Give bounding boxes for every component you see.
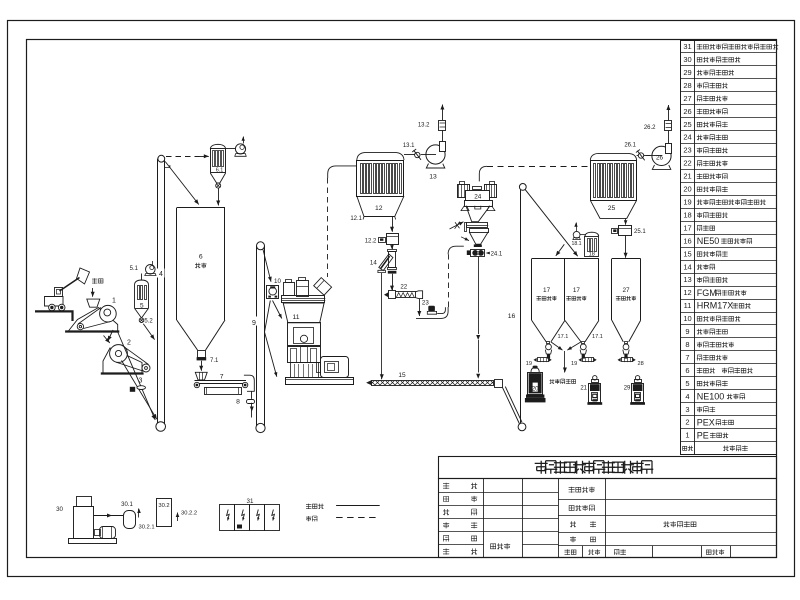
svg-text:12: 12 — [375, 205, 383, 212]
label 块料 feed — [91, 278, 103, 297]
svg-text:HRM17X: HRM17X — [697, 301, 734, 311]
svg-text:22: 22 — [683, 159, 691, 168]
discharge pipe under 12.2 — [388, 250, 397, 274]
svg-text:27: 27 — [622, 287, 630, 294]
ultra-fine classifier 24 — [458, 182, 497, 245]
svg-text:23: 23 — [422, 300, 429, 307]
conveying pipe bend 23/22 — [416, 307, 448, 318]
air dryer 30.2 — [157, 499, 172, 527]
svg-text:12.1: 12.1 — [350, 216, 362, 222]
svg-text:26: 26 — [656, 155, 664, 162]
svg-text:8: 8 — [236, 399, 240, 406]
svg-text:1: 1 — [685, 431, 689, 440]
rotary valve 24.1 — [467, 250, 503, 258]
air line elevator 4 to collector 6.1 — [166, 154, 209, 158]
svg-text:29: 29 — [624, 386, 631, 392]
svg-text:PE: PE — [697, 430, 709, 440]
wire arrow 30.2.2 — [176, 511, 197, 522]
svg-text:2: 2 — [127, 340, 131, 347]
svg-text:17.1: 17.1 — [558, 334, 569, 340]
wire 6.1 to silo 6 — [216, 188, 220, 205]
svg-text:17: 17 — [543, 287, 551, 294]
svg-text:5: 5 — [685, 379, 689, 388]
elevator 4 (NE100 bucket elevator) — [156, 155, 166, 431]
svg-text:27: 27 — [683, 94, 691, 103]
svg-text:30.1: 30.1 — [121, 502, 133, 508]
svg-text:30: 30 — [683, 55, 691, 64]
wire screw 22 drop — [417, 299, 421, 316]
svg-text:18.1: 18.1 — [571, 241, 581, 247]
svg-text:28: 28 — [638, 361, 644, 367]
svg-text:7.1: 7.1 — [210, 358, 219, 364]
ground line under loader — [35, 311, 73, 321]
svg-text:22: 22 — [400, 284, 407, 291]
valve 13.1 — [403, 143, 421, 160]
svg-text:17: 17 — [683, 223, 691, 232]
silo-top dust collector 18 — [585, 232, 599, 257]
svg-text:6.1: 6.1 — [216, 167, 224, 173]
svg-text:NE100: NE100 — [697, 391, 725, 401]
svg-text:8: 8 — [685, 340, 689, 349]
title box 立磨配二次分选流程示意图 — [439, 457, 777, 479]
screw conveyor 22 — [384, 284, 423, 299]
svg-text:14: 14 — [683, 262, 691, 271]
svg-text:5: 5 — [140, 302, 144, 309]
valve 5.2 — [139, 318, 153, 325]
bag outlet under silo 17-1 — [545, 334, 568, 359]
wire crossed feed into 24 — [450, 222, 464, 229]
wire arrow into 24 cone — [461, 237, 469, 241]
svg-text:28: 28 — [683, 81, 691, 90]
title block grid — [439, 479, 777, 558]
air compressor 30 — [56, 497, 116, 544]
iron remover 3 — [130, 378, 146, 392]
wire crusher1 to crusher2 — [108, 330, 113, 341]
fine powder dust collector 25 — [590, 153, 636, 218]
discharge valve 7.1 — [197, 357, 219, 364]
svg-text:FGM: FGM — [697, 288, 717, 298]
air receiver 30.1 — [121, 502, 135, 529]
wire crusher2 to elevator 4 — [122, 361, 157, 420]
discharge spout of elevator 4 — [165, 165, 170, 168]
svg-text:13.1: 13.1 — [403, 143, 415, 149]
svg-text:10: 10 — [274, 278, 281, 285]
svg-text:17.1: 17.1 — [592, 334, 603, 340]
svg-text:23: 23 — [683, 146, 691, 155]
svg-text:12: 12 — [683, 288, 691, 297]
svg-text:20: 20 — [532, 386, 539, 392]
fan 18.1 — [571, 223, 581, 247]
air-slide chute 14 — [370, 254, 393, 273]
silo-top dust collector 6.1 — [210, 144, 225, 183]
fine powder packer 29 — [624, 376, 645, 405]
legend material flow — [306, 504, 380, 509]
svg-text:31: 31 — [683, 42, 691, 51]
wire collector 12 to valve 13.1 — [404, 154, 415, 156]
svg-text:31: 31 — [247, 498, 254, 505]
wheel loader — [45, 268, 90, 311]
wire gate 8 to elevator 9 — [250, 403, 254, 418]
wire feeder 7 to gate 8 — [251, 391, 253, 399]
fan 13 outlet + valve 13.2 — [418, 105, 446, 142]
rotary air-lock feeder 10 — [267, 278, 282, 299]
wire branch into silo 17-1 — [556, 244, 565, 256]
wire feed arrow into crusher 2 — [104, 336, 110, 344]
fine powder packer 21 — [580, 376, 602, 405]
svg-text:10: 10 — [683, 314, 691, 323]
raw material silo 6 — [177, 208, 226, 358]
elevator 16 (NE50 bucket elevator) — [508, 184, 526, 431]
rotary valve 25.1 — [612, 226, 647, 236]
air conveying riser to classifier 24 — [448, 246, 464, 307]
wire 12 to valve 12.2 — [390, 217, 394, 232]
valve 26.1 — [624, 143, 644, 161]
ton-bag packer 20 — [525, 366, 546, 403]
svg-text:25.1: 25.1 — [634, 229, 646, 235]
svg-text:24: 24 — [683, 133, 691, 142]
fan 5.1 — [130, 261, 156, 280]
svg-text:16: 16 — [508, 313, 516, 320]
wire 25 to valve 26.1 — [637, 155, 651, 157]
svg-text:25: 25 — [683, 120, 691, 129]
dust collector 5 — [135, 280, 149, 318]
svg-text:11: 11 — [684, 301, 692, 310]
svg-text:25: 25 — [608, 205, 616, 212]
svg-text:12.2: 12.2 — [365, 238, 377, 244]
fan of collector 6.1 — [226, 137, 247, 157]
svg-text:9: 9 — [252, 320, 256, 327]
svg-text:11: 11 — [292, 314, 299, 321]
svg-text:30: 30 — [56, 506, 63, 513]
wire 5.2 to elevator 4 — [143, 324, 154, 340]
svg-text:15: 15 — [683, 249, 691, 258]
svg-text:15: 15 — [398, 372, 406, 379]
feed hopper — [87, 299, 100, 307]
wire elevator 16 to silos — [525, 190, 578, 257]
fine product silo 27 — [612, 259, 641, 342]
svg-text:5.1: 5.1 — [130, 266, 139, 272]
svg-text:NE50: NE50 — [697, 236, 720, 246]
main mill fan 13 — [421, 142, 446, 181]
bag outlet under silo 27 — [623, 342, 629, 359]
wire chute 14 to screw 15 — [380, 273, 384, 380]
svg-text:13.2: 13.2 — [418, 123, 430, 129]
legend air flow — [306, 516, 380, 521]
product silos 17-1 and 17-2 — [532, 259, 599, 342]
svg-text:7: 7 — [220, 374, 224, 381]
svg-text:3: 3 — [685, 405, 689, 414]
svg-text:20: 20 — [683, 185, 691, 194]
flange under 24 — [474, 244, 482, 247]
pneumatic blower 23 — [422, 300, 437, 315]
wire elevator 9 to feeder 10 — [263, 250, 272, 282]
svg-text:4: 4 — [159, 271, 163, 278]
wire feeder 10 into mill top — [273, 301, 282, 319]
svg-text:1: 1 — [112, 298, 116, 305]
equipment list table — [681, 40, 779, 455]
wire 24.1 to screw 15 — [476, 257, 480, 379]
svg-text:26: 26 — [683, 107, 691, 116]
fan 26 outlet + valve 26.2 — [644, 105, 672, 143]
wire 12.2 to pipe — [390, 244, 394, 249]
bulk truck loading chute 散装车接口 — [550, 342, 582, 384]
svg-text:16: 16 — [683, 236, 691, 245]
wire 25.1 to silo 27 — [624, 235, 628, 258]
svg-text:24.1: 24.1 — [491, 252, 503, 258]
wire 18.1 to 18 — [580, 234, 585, 236]
screw conveyor 15 — [366, 372, 502, 388]
svg-text:29: 29 — [683, 68, 691, 77]
svg-text:6: 6 — [685, 366, 689, 375]
svg-text:14: 14 — [370, 260, 377, 267]
svg-text:2: 2 — [685, 418, 689, 427]
wire 7.1 to feeder 7 — [199, 361, 203, 371]
wire elevator 4 to silo 6 — [165, 162, 199, 205]
svg-text:19: 19 — [526, 361, 532, 367]
svg-text:30.2.2: 30.2.2 — [181, 511, 197, 517]
bag outlet under silo 17-2 — [580, 334, 603, 359]
wire crusher1 discharge to elevator 4 — [118, 332, 156, 421]
wire 30 to receiver 30.1 — [94, 514, 123, 518]
discharger 19 (silo 17-1) — [526, 358, 552, 367]
svg-text:19: 19 — [683, 198, 691, 207]
svg-text:18: 18 — [589, 252, 595, 258]
feeder 7 (quantitative belt feeder) — [194, 372, 254, 394]
wire 25 to valve 25.1 — [624, 218, 628, 224]
svg-text:19: 19 — [571, 361, 577, 367]
svg-text:3: 3 — [139, 378, 143, 385]
svg-text:4: 4 — [685, 392, 689, 401]
crusher 1 (PE jaw crusher) — [65, 298, 119, 332]
slide gate 8 — [236, 399, 254, 406]
svg-text:30.2.1: 30.2.1 — [139, 525, 155, 531]
svg-text:24: 24 — [474, 194, 482, 201]
svg-text:26.1: 26.1 — [624, 143, 636, 149]
wire arrow 30.2.1 — [137, 509, 154, 531]
svg-text:18: 18 — [683, 211, 691, 220]
wire screw 15 to elevator 16 boot — [502, 387, 522, 424]
svg-text:17: 17 — [573, 287, 581, 294]
discharger 19 (silo 17-2) — [571, 358, 597, 367]
svg-text:13: 13 — [683, 275, 691, 284]
svg-text:26.2: 26.2 — [644, 125, 656, 131]
vertical mill 11 (HRM17X) — [282, 278, 354, 385]
wire feeder 10 down to mill base — [265, 301, 278, 377]
svg-text:6: 6 — [199, 254, 203, 261]
ultra-fine main fan 26 — [647, 144, 672, 170]
elevator 9 (bucket elevator) — [251, 242, 266, 433]
svg-text:9: 9 — [685, 327, 689, 336]
svg-text:13: 13 — [429, 174, 437, 181]
svg-text:21: 21 — [683, 172, 691, 181]
svg-text:5.2: 5.2 — [144, 319, 153, 325]
control cabinets 31 — [220, 498, 280, 531]
rotary valve 12.2 — [365, 234, 399, 245]
air line mill 11 to collector 12 — [328, 166, 357, 277]
air line classifier 24 to collector 25 — [479, 166, 590, 181]
FGM product collector 12 — [350, 152, 404, 222]
svg-text:PEX: PEX — [697, 417, 715, 427]
discharger 28 (silo 27) — [618, 358, 644, 367]
wire pipe to screw 22 — [390, 274, 394, 291]
svg-text:21: 21 — [580, 386, 587, 392]
valve under 6.1 — [216, 183, 221, 188]
svg-text:7: 7 — [685, 353, 689, 362]
svg-text:30.2: 30.2 — [158, 503, 169, 509]
crusher 2 (PEX jaw crusher) — [101, 340, 150, 374]
